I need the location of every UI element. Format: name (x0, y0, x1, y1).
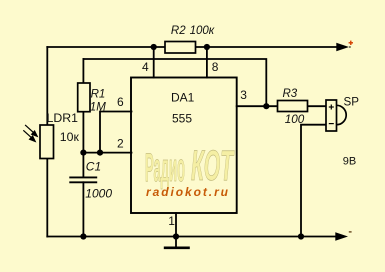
svg-text:1000: 1000 (85, 186, 112, 200)
svg-text:1: 1 (168, 214, 175, 228)
photoresistor LDR1 (40, 125, 54, 159)
svg-text:555: 555 (172, 112, 192, 126)
op IC DA1 555 (131, 78, 237, 214)
svg-text:4: 4 (142, 60, 149, 74)
junction dot pin6 (97, 150, 103, 156)
junction dot B (204, 44, 210, 50)
svg-text:LDR1: LDR1 (47, 111, 79, 125)
capacitor C1 (69, 177, 97, 182)
svg-text:9В: 9В (343, 156, 356, 168)
resistor R3 (278, 101, 308, 112)
junction dot pin3 (263, 103, 269, 109)
LDR light arrow 2 (23, 130, 35, 141)
wire top rail (47, 46, 338, 48)
wire pin3 output (237, 105, 326, 107)
svg-text:DA1: DA1 (171, 91, 195, 105)
svg-text:R3: R3 (283, 88, 298, 100)
svg-text:6: 6 (117, 95, 124, 109)
ground (164, 247, 190, 250)
battery plus sign (349, 41, 353, 45)
svg-text:1M: 1M (90, 101, 106, 113)
svg-text:3: 3 (240, 88, 247, 102)
svg-text:C1: C1 (86, 160, 101, 174)
wire left vertical (46, 47, 48, 237)
wire feedback y59 (83, 59, 266, 106)
svg-text:100: 100 (285, 113, 305, 126)
battery plus arrow (336, 43, 351, 51)
junction dot R1C1 (80, 150, 86, 156)
wire pin1 vertical (175, 213, 177, 248)
svg-text:R2: R2 (171, 25, 186, 37)
svg-text:8: 8 (212, 60, 219, 74)
svg-text:Радио: Радио (145, 146, 185, 190)
LDR light arrow 1 (25, 125, 37, 136)
svg-text:radiokot.ru: radiokot.ru (146, 185, 229, 199)
svg-text:R1: R1 (91, 89, 106, 101)
junction dot A (151, 44, 157, 50)
wire bottom rail (47, 236, 336, 238)
battery minus sign (349, 231, 352, 233)
resistor R1 (78, 83, 90, 112)
wire pin2 (83, 152, 131, 154)
wire C1 to bottom rail (82, 182, 84, 236)
junction dot speaker minus (298, 233, 304, 239)
wire pin4 vertical (153, 47, 155, 78)
wire pin8 vertical (206, 47, 208, 78)
junction dot C1 bottom (80, 233, 86, 239)
junction dot pin1 (173, 233, 179, 239)
svg-text:КОТ: КОТ (191, 142, 235, 190)
wire speaker minus (301, 125, 326, 237)
resistor R2 (165, 42, 196, 54)
speaker SP (326, 100, 346, 131)
wire R1 branch vertical (82, 59, 84, 177)
svg-text:2: 2 (117, 136, 124, 150)
wire pin6 (100, 112, 132, 153)
svg-text:10к: 10к (60, 130, 80, 144)
svg-text:100к: 100к (190, 25, 215, 37)
battery minus arrow (335, 232, 348, 240)
svg-text:SP: SP (344, 96, 360, 109)
